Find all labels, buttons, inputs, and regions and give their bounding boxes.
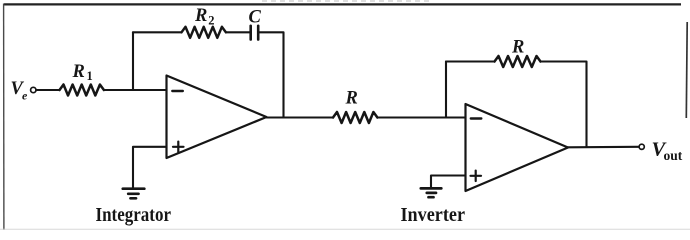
- svg-text:out: out: [664, 148, 683, 163]
- wire Ve to R1: [36, 89, 59, 91]
- op-amp U1: [167, 76, 267, 159]
- svg-text:1: 1: [87, 69, 93, 83]
- ground (U2): [421, 188, 442, 197]
- wire feedback tap vertical (node at x=133): [132, 32, 134, 90]
- terminal Vout: [639, 144, 644, 149]
- wire U2 feedback top to R: [446, 60, 495, 62]
- svg-text:e: e: [22, 89, 28, 103]
- wire U1 noninverting input to ground: [133, 147, 167, 188]
- resistor R (inverter feedback): [495, 56, 541, 67]
- label R1: [72, 62, 93, 83]
- wire feedback top to R2: [133, 31, 182, 33]
- capacitor C: [251, 26, 259, 40]
- wire U2 noninverting input to ground: [431, 176, 466, 189]
- wire R1 to U1 inverting input: [104, 89, 167, 91]
- svg-text:R: R: [511, 37, 524, 57]
- terminal Ve: [31, 87, 36, 92]
- node Vout: [652, 139, 683, 163]
- svg-text:R: R: [345, 89, 358, 109]
- page frame (decorative, scanned book border): [4, 3, 681, 5]
- svg-text:R: R: [194, 6, 207, 26]
- svg-text:C: C: [249, 8, 262, 28]
- svg-text:Inverter: Inverter: [401, 204, 466, 226]
- wire feedback R down to U2 output: [541, 62, 587, 148]
- wire R to U2 inverting input: [377, 116, 465, 118]
- op-amp U2: [466, 104, 569, 191]
- svg-text:R: R: [72, 62, 85, 82]
- wire U1 output to R: [267, 116, 334, 118]
- resistor R (inverter input): [333, 112, 377, 123]
- wire R2 to C: [226, 31, 250, 33]
- wire C to feedback right corner and down to U1 output: [260, 32, 284, 117]
- svg-text:2: 2: [208, 14, 214, 28]
- resistor R2: [182, 27, 226, 38]
- wire U2 output to Vout terminal: [568, 146, 639, 149]
- node Ve: [11, 79, 29, 103]
- svg-text:Integrator: Integrator: [96, 204, 172, 226]
- wire U2 feedback vertical left (node at x=446): [445, 62, 447, 118]
- ground (U1): [123, 189, 145, 199]
- label R2: [194, 6, 214, 28]
- resistor R1: [60, 85, 104, 96]
